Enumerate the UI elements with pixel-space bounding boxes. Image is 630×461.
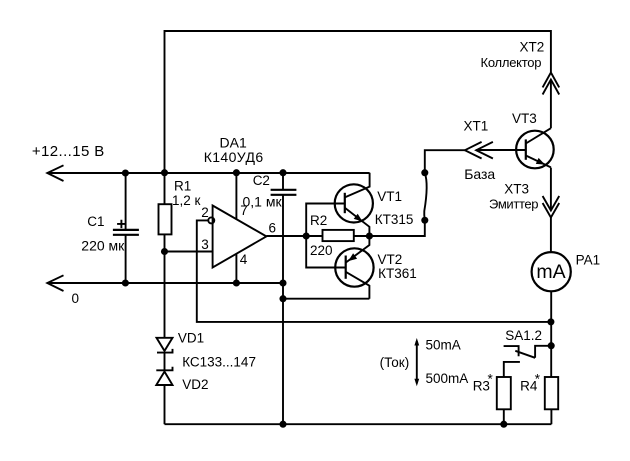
transistor VT3 xyxy=(516,128,554,168)
svg-text:VD1: VD1 xyxy=(178,331,204,346)
wire probe column to XT1 corner xyxy=(425,150,465,173)
resistor R2 xyxy=(323,230,354,241)
svg-text:*: * xyxy=(535,372,541,387)
node probe bottom xyxy=(421,217,428,224)
svg-text:XT2: XT2 xyxy=(520,40,545,55)
svg-text:VT3: VT3 xyxy=(512,111,537,126)
node pin 6 / bases xyxy=(303,232,310,239)
svg-text:VD2: VD2 xyxy=(182,377,208,392)
svg-text:0,1 мк: 0,1 мк xyxy=(243,193,283,209)
node bottom bus / 0V column xyxy=(279,421,286,428)
capacitor C1 xyxy=(113,230,139,235)
svg-text:C2: C2 xyxy=(253,173,270,188)
svg-text:R2: R2 xyxy=(310,213,327,228)
C1 plus sign xyxy=(117,220,126,228)
resistor R4 xyxy=(545,377,558,409)
transistor VT1 xyxy=(335,173,373,236)
milliammeter PA1 xyxy=(532,252,571,291)
svg-text:XT1: XT1 xyxy=(464,119,489,134)
svg-text:4: 4 xyxy=(240,252,248,267)
svg-text:КТ361: КТ361 xyxy=(378,266,417,281)
svg-text:Эмиттер: Эмиттер xyxy=(489,197,538,212)
svg-text:К140УД6: К140УД6 xyxy=(204,149,264,165)
wire base column to VT1 and VT2 xyxy=(306,204,346,268)
wire pin 2 input and feedback to measuring bus xyxy=(197,220,551,322)
wire VT3 emitter down to XT3 xyxy=(550,168,552,211)
node C1 top xyxy=(122,169,129,176)
wire pin 7 supply xyxy=(235,173,237,220)
resistor R3 xyxy=(497,377,511,409)
wire R2 right to probe column xyxy=(354,220,425,236)
wire C2 bottom / 0V column down to bottom bus xyxy=(282,195,284,424)
node probe top xyxy=(421,169,428,176)
wire top loop from +12 rail to XT2 xyxy=(165,31,551,173)
node R1 top / loop xyxy=(161,169,168,176)
node pin 7 xyxy=(233,169,240,176)
svg-text:R1: R1 xyxy=(174,179,191,194)
node pin 4 xyxy=(233,279,240,286)
node R3 bottom xyxy=(500,421,507,428)
wire C1 top lead xyxy=(125,173,127,230)
node C2 bottom xyxy=(279,279,286,286)
node switch xyxy=(548,342,555,349)
wire R4 bottom xyxy=(550,409,552,424)
wire R1 top xyxy=(164,173,166,205)
svg-text:220 мк: 220 мк xyxy=(81,237,125,253)
zener VD2 xyxy=(156,367,172,385)
switch SA1.2 xyxy=(504,346,552,377)
svg-text:2: 2 xyxy=(201,205,209,220)
svg-text:7: 7 xyxy=(240,203,248,218)
wire PA1 to switch node and R4 xyxy=(550,291,552,377)
svg-text:КС133...147: КС133...147 xyxy=(182,354,256,369)
connector XT2 chevrons xyxy=(543,73,560,95)
svg-text:Коллектор: Коллектор xyxy=(481,55,542,70)
svg-text:PA1: PA1 xyxy=(576,253,601,268)
wire pin 3 input xyxy=(165,251,213,253)
node VT2 collector return xyxy=(279,295,286,302)
current range double arrow xyxy=(414,338,419,386)
wire XT3 to PA1 xyxy=(550,218,552,253)
resistor R1 xyxy=(159,204,172,234)
svg-text:База: База xyxy=(464,166,495,182)
svg-text:+12...15 В: +12...15 В xyxy=(32,143,105,160)
connector XT3 chevrons xyxy=(543,196,560,218)
zener VD1 xyxy=(157,338,173,353)
wire VD1 to VD2 xyxy=(164,353,166,371)
wire pin 4 supply xyxy=(235,254,237,284)
svg-text:SA1.2: SA1.2 xyxy=(505,328,542,343)
wire R3 bottom xyxy=(503,409,505,424)
svg-text:0: 0 xyxy=(72,291,80,306)
wire C2 top lead xyxy=(282,173,284,190)
svg-text:mA: mA xyxy=(536,261,565,283)
wire bottom bus xyxy=(165,423,552,425)
wire R1 bottom to VD1 xyxy=(164,234,166,337)
svg-text:6: 6 xyxy=(269,220,277,235)
wire VT3 collector up to XT2 xyxy=(550,80,552,129)
svg-text:50mA: 50mA xyxy=(426,337,461,352)
wire VT2 collector return xyxy=(283,298,369,300)
capacitor C2 xyxy=(271,190,297,195)
wire probe flexible link xyxy=(424,173,427,221)
op-amp DA1 xyxy=(208,206,266,268)
svg-text:500mA: 500mA xyxy=(426,371,469,386)
node measuring bus right xyxy=(547,318,554,325)
wire C1 bottom lead xyxy=(125,235,127,283)
wire pin 6 output xyxy=(266,235,322,237)
svg-text:XT3: XT3 xyxy=(504,181,529,196)
node emitters junction xyxy=(366,232,373,239)
svg-text:C1: C1 xyxy=(87,214,104,229)
wire VD2 to bottom bus xyxy=(164,385,166,424)
node C1 bottom xyxy=(122,279,129,286)
svg-text:220: 220 xyxy=(310,243,333,258)
transistor VT2 xyxy=(335,236,373,299)
node C2 top xyxy=(279,169,286,176)
svg-text:КТ315: КТ315 xyxy=(375,212,414,227)
svg-text:3: 3 xyxy=(201,237,209,252)
svg-text:*: * xyxy=(488,372,494,387)
wire +12V rail with left arrow xyxy=(47,165,370,181)
wire XT1 to VT3 base xyxy=(476,149,526,151)
svg-text:VT1: VT1 xyxy=(377,189,402,204)
wire 0V rail with left arrow xyxy=(47,275,283,291)
connector XT1 chevrons xyxy=(465,142,493,159)
svg-text:(Ток): (Ток) xyxy=(380,355,410,370)
node pin 3 / R1 bottom xyxy=(161,248,168,255)
svg-text:1,2 к: 1,2 к xyxy=(172,193,201,208)
